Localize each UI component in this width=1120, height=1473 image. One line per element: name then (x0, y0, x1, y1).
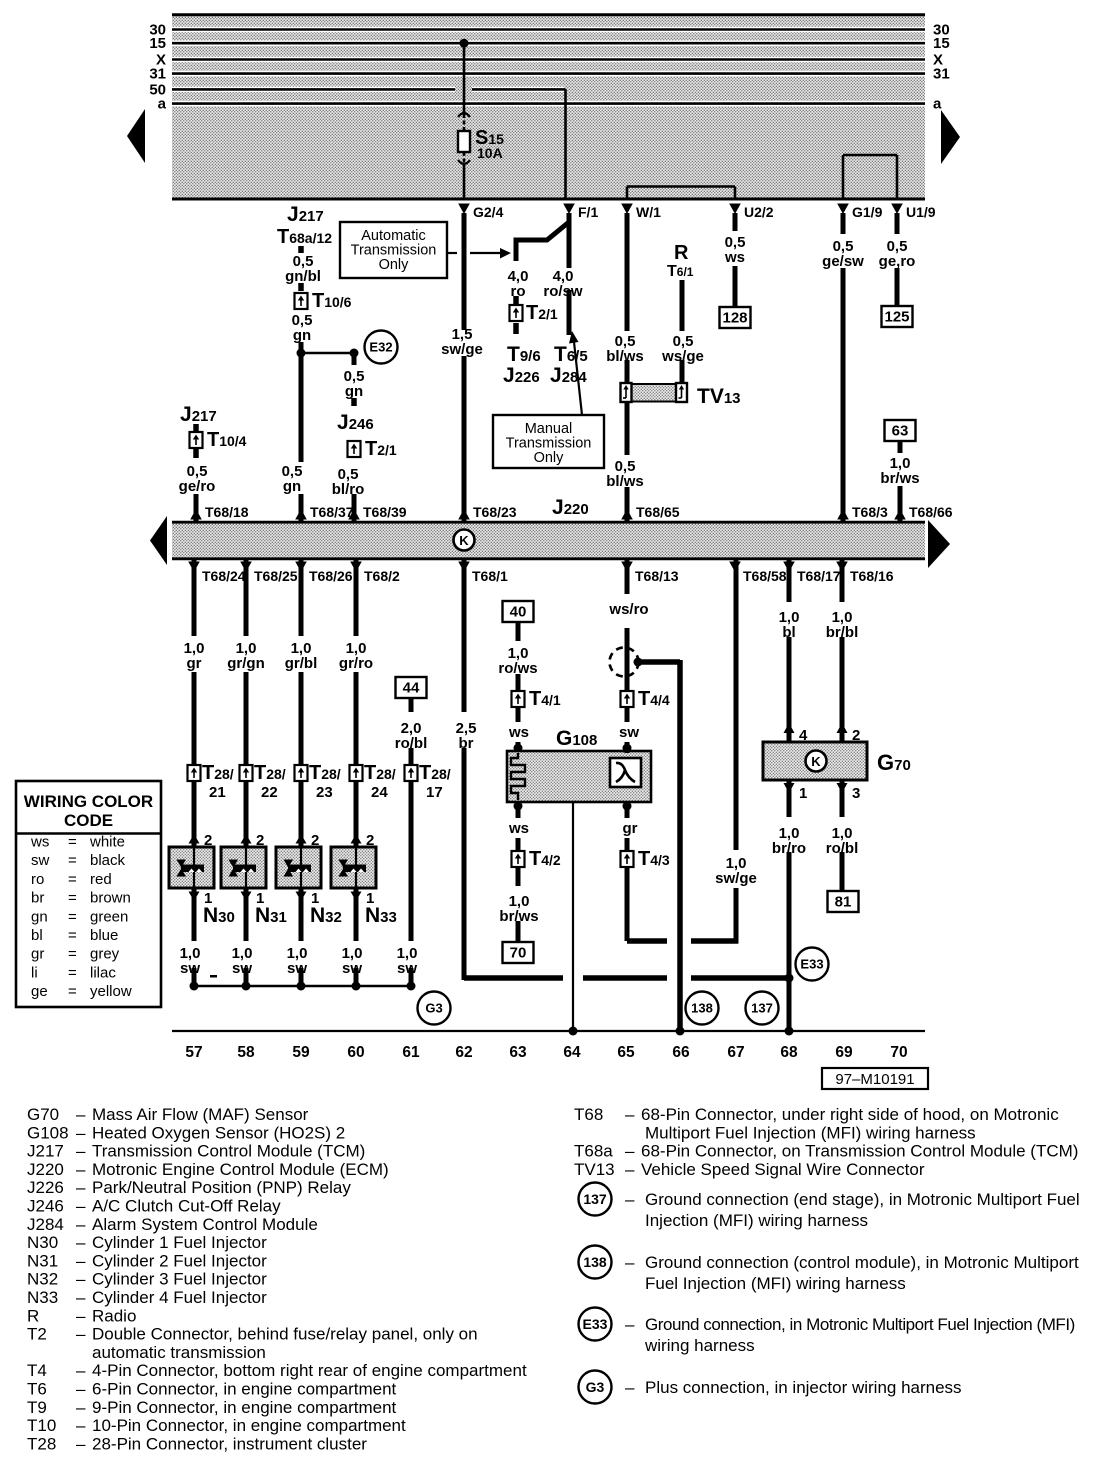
svg-text:=: = (68, 964, 77, 981)
svg-text:24: 24 (371, 784, 388, 801)
svg-text:22: 22 (261, 784, 278, 801)
svg-text:N33: N33 (27, 1288, 58, 1307)
svg-text:J217: J217 (27, 1142, 64, 1161)
svg-text:T68/25: T68/25 (254, 568, 298, 584)
svg-text:T6/1: T6/1 (667, 263, 694, 280)
svg-text:=: = (68, 852, 77, 869)
svg-text:–: – (625, 1160, 635, 1179)
svg-text:Transmission Control Module (T: Transmission Control Module (TCM) (92, 1142, 365, 1161)
svg-text:bl: bl (31, 927, 43, 944)
svg-text:G1/9: G1/9 (852, 204, 883, 220)
svg-text:–: – (76, 1142, 86, 1161)
svg-text:W/1: W/1 (636, 204, 661, 220)
svg-text:–: – (76, 1288, 86, 1307)
svg-text:gr/gn: gr/gn (227, 655, 265, 672)
svg-text:gn: gn (293, 327, 311, 344)
svg-text:gr/ro: gr/ro (339, 655, 373, 672)
svg-text:10-Pin Connector, in engine co: 10-Pin Connector, in engine compartment (92, 1416, 406, 1435)
svg-text:U2/2: U2/2 (744, 204, 774, 220)
svg-text:G3: G3 (425, 1001, 442, 1016)
svg-text:T10/4: T10/4 (207, 429, 247, 451)
svg-text:sw: sw (31, 852, 50, 869)
svg-text:–: – (625, 1378, 635, 1397)
svg-text:T68a/12: T68a/12 (277, 226, 332, 248)
svg-text:15: 15 (149, 35, 166, 52)
svg-text:li: li (31, 964, 38, 981)
svg-text:Fuel Injection (MFI) wiring ha: Fuel Injection (MFI) wiring harness (645, 1274, 906, 1293)
svg-text:59: 59 (292, 1044, 310, 1061)
svg-text:R: R (674, 242, 689, 264)
svg-text:69: 69 (835, 1044, 853, 1061)
svg-text:gn: gn (283, 478, 301, 495)
svg-text:T68/3: T68/3 (852, 504, 888, 520)
svg-text:T68/23: T68/23 (473, 504, 517, 520)
svg-text:black: black (90, 852, 126, 869)
svg-text:15: 15 (933, 35, 950, 52)
svg-text:63: 63 (509, 1044, 527, 1061)
svg-text:Heated Oxygen Sensor (HO2S) 2: Heated Oxygen Sensor (HO2S) 2 (92, 1123, 345, 1142)
svg-text:a: a (158, 96, 167, 113)
svg-text:T28/: T28/ (202, 762, 234, 784)
svg-text:lilac: lilac (90, 964, 116, 981)
svg-text:blue: blue (90, 927, 118, 944)
svg-text:green: green (90, 908, 128, 925)
svg-text:K: K (459, 533, 469, 548)
svg-text:T4/4: T4/4 (638, 688, 670, 710)
svg-text:T68/18: T68/18 (205, 504, 249, 520)
svg-text:sw: sw (342, 960, 362, 977)
svg-text:60: 60 (347, 1044, 364, 1061)
svg-text:65: 65 (617, 1044, 635, 1061)
svg-text:bl/ro: bl/ro (332, 481, 365, 498)
svg-text:sw/ge: sw/ge (441, 341, 483, 358)
svg-text:J226: J226 (27, 1178, 64, 1197)
svg-text:E33: E33 (583, 1316, 608, 1332)
svg-text:G70: G70 (27, 1105, 59, 1124)
svg-text:T10/6: T10/6 (312, 290, 352, 312)
svg-text:81: 81 (835, 894, 852, 911)
svg-text:64: 64 (563, 1044, 581, 1061)
svg-text:gr: gr (31, 946, 44, 963)
svg-text:ge/sw: ge/sw (822, 253, 864, 270)
svg-text:TV13: TV13 (574, 1160, 615, 1179)
svg-text:T68/17: T68/17 (797, 568, 841, 584)
svg-text:–: – (625, 1315, 635, 1334)
svg-text:grey: grey (90, 946, 120, 963)
svg-text:CODE: CODE (64, 811, 113, 830)
svg-text:17: 17 (426, 784, 443, 801)
svg-text:gr/bl: gr/bl (285, 655, 318, 672)
svg-text:=: = (68, 908, 77, 925)
svg-text:Ground connection, in Motronic: Ground connection, in Motronic Multiport… (645, 1315, 1075, 1334)
svg-text:31: 31 (149, 66, 166, 83)
svg-text:Ground connection (end stage),: Ground connection (end stage), in Motron… (645, 1190, 1080, 1209)
svg-text:T10: T10 (27, 1416, 56, 1435)
svg-text:–: – (76, 1178, 86, 1197)
svg-text:br/ws: br/ws (880, 470, 919, 487)
svg-text:1: 1 (799, 785, 807, 802)
svg-text:70: 70 (510, 945, 527, 962)
svg-text:T9: T9 (27, 1398, 47, 1417)
svg-text:–: – (625, 1105, 635, 1124)
svg-text:Ground connection (control mod: Ground connection (control module), in M… (645, 1253, 1079, 1272)
svg-text:J284: J284 (27, 1215, 64, 1234)
svg-text:=: = (68, 890, 77, 907)
svg-text:T68/66: T68/66 (909, 504, 953, 520)
svg-text:sw: sw (287, 960, 307, 977)
svg-text:ge,ro: ge,ro (879, 253, 916, 270)
svg-text:F/1: F/1 (578, 204, 598, 220)
svg-text:58: 58 (237, 1044, 255, 1061)
svg-text:automatic transmission: automatic transmission (92, 1343, 266, 1362)
svg-text:137: 137 (583, 1191, 607, 1207)
svg-text:Radio: Radio (92, 1306, 136, 1325)
svg-text:61: 61 (402, 1044, 420, 1061)
svg-text:137: 137 (751, 1001, 773, 1016)
svg-text:ws: ws (30, 834, 49, 851)
svg-text:T68a: T68a (574, 1142, 613, 1161)
svg-text:–: – (76, 1306, 86, 1325)
svg-text:3: 3 (852, 785, 860, 802)
svg-text:6-Pin Connector, in engine com: 6-Pin Connector, in engine compartment (92, 1380, 397, 1399)
svg-text:ro: ro (31, 871, 44, 888)
svg-text:wiring harness: wiring harness (644, 1336, 755, 1355)
svg-text:Multiport Fuel Injection (MFI): Multiport Fuel Injection (MFI) wiring ha… (645, 1123, 976, 1142)
svg-text:–: – (76, 1398, 86, 1417)
svg-text:Plus connection, in injector w: Plus connection, in injector wiring harn… (645, 1378, 962, 1397)
svg-text:A/C Clutch Cut-Off Relay: A/C Clutch Cut-Off Relay (92, 1197, 281, 1216)
svg-text:T68/37: T68/37 (310, 504, 354, 520)
svg-text:gn: gn (345, 383, 363, 400)
svg-text:gn/bl: gn/bl (285, 268, 321, 285)
svg-text:23: 23 (316, 784, 333, 801)
svg-text:Mass Air Flow (MAF) Sensor: Mass Air Flow (MAF) Sensor (92, 1105, 309, 1124)
svg-text:J220: J220 (27, 1160, 64, 1179)
svg-text:T68/58: T68/58 (743, 568, 787, 584)
svg-text:=: = (68, 983, 77, 1000)
svg-text:U1/9: U1/9 (906, 204, 936, 220)
svg-text:97–M10191: 97–M10191 (835, 1071, 914, 1088)
svg-text:T68: T68 (574, 1105, 603, 1124)
svg-text:T68/39: T68/39 (363, 504, 407, 520)
svg-text:E33: E33 (800, 957, 823, 972)
svg-text:brown: brown (90, 890, 131, 907)
svg-text:T4/1: T4/1 (529, 688, 561, 710)
svg-text:–: – (76, 1160, 86, 1179)
svg-text:gn: gn (31, 908, 48, 925)
svg-text:9-Pin Connector, in engine com: 9-Pin Connector, in engine compartment (92, 1398, 397, 1417)
svg-text:ge: ge (31, 983, 48, 1000)
svg-text:125: 125 (884, 309, 909, 326)
svg-text:T4: T4 (27, 1361, 47, 1380)
svg-text:21: 21 (209, 784, 226, 801)
svg-text:sw: sw (180, 960, 200, 977)
svg-text:ro/sw: ro/sw (543, 283, 583, 300)
svg-text:T28/: T28/ (254, 762, 286, 784)
svg-text:T68/26: T68/26 (309, 568, 353, 584)
svg-text:28-Pin Connector, instrument c: 28-Pin Connector, instrument cluster (92, 1434, 367, 1453)
svg-text:70: 70 (890, 1044, 907, 1061)
svg-text:T68/24: T68/24 (202, 568, 246, 584)
svg-text:gr: gr (623, 820, 638, 837)
svg-text:T6: T6 (27, 1380, 47, 1399)
svg-text:sw: sw (619, 724, 639, 741)
svg-text:sw/ge: sw/ge (715, 870, 757, 887)
svg-text:br: br (31, 890, 44, 907)
svg-text:10A: 10A (477, 145, 503, 161)
svg-text:sw: sw (397, 960, 417, 977)
svg-text:–: – (76, 1361, 86, 1380)
svg-text:=: = (68, 871, 77, 888)
svg-text:4-Pin Connector, bottom right: 4-Pin Connector, bottom right rear of en… (92, 1361, 527, 1380)
svg-text:=: = (68, 927, 77, 944)
svg-text:–: – (76, 1215, 86, 1234)
svg-text:N32: N32 (27, 1270, 58, 1289)
svg-text:J246: J246 (27, 1197, 64, 1216)
svg-text:T4/3: T4/3 (638, 848, 670, 870)
svg-text:–: – (76, 1380, 86, 1399)
svg-text:Injection (MFI) wiring harness: Injection (MFI) wiring harness (645, 1211, 868, 1230)
svg-text:E32: E32 (369, 340, 392, 355)
svg-text:sw: sw (232, 960, 252, 977)
svg-text:–: – (76, 1416, 86, 1435)
svg-text:=: = (68, 946, 77, 963)
svg-text:–: – (76, 1270, 86, 1289)
svg-text:66: 66 (672, 1044, 690, 1061)
svg-text:128: 128 (722, 310, 747, 327)
svg-text:T68/65: T68/65 (636, 504, 680, 520)
svg-text:G2/4: G2/4 (473, 204, 504, 220)
svg-text:T68/16: T68/16 (850, 568, 894, 584)
svg-text:ws: ws (508, 724, 529, 741)
svg-text:Motronic Engine Control Module: Motronic Engine Control Module (ECM) (92, 1160, 389, 1179)
svg-text:T4/2: T4/2 (529, 848, 561, 870)
svg-text:white: white (89, 834, 125, 851)
svg-text:44: 44 (403, 680, 420, 697)
svg-text:T28/: T28/ (419, 762, 451, 784)
svg-text:Cylinder 1 Fuel Injector: Cylinder 1 Fuel Injector (92, 1233, 267, 1252)
svg-text:–: – (76, 1325, 86, 1344)
svg-text:N30: N30 (27, 1233, 58, 1252)
svg-text:31: 31 (933, 66, 950, 83)
svg-text:ws: ws (724, 249, 745, 266)
svg-text:Cylinder 2 Fuel Injector: Cylinder 2 Fuel Injector (92, 1251, 267, 1270)
svg-text:WIRING COLOR: WIRING COLOR (24, 792, 153, 811)
svg-text:67: 67 (727, 1044, 744, 1061)
svg-text:N31: N31 (27, 1251, 58, 1270)
svg-text:–: – (76, 1105, 86, 1124)
svg-text:68: 68 (780, 1044, 798, 1061)
svg-text:ge/ro: ge/ro (179, 478, 216, 495)
svg-text:a: a (933, 96, 942, 113)
svg-text:G3: G3 (586, 1379, 605, 1395)
svg-text:–: – (625, 1142, 635, 1161)
svg-text:yellow: yellow (90, 983, 132, 1000)
svg-text:T28/: T28/ (309, 762, 341, 784)
svg-text:Vehicle Speed Signal Wire Conn: Vehicle Speed Signal Wire Connector (641, 1160, 925, 1179)
svg-text:T2/1: T2/1 (365, 438, 397, 460)
svg-text:T68/1: T68/1 (472, 568, 508, 584)
svg-text:63: 63 (892, 423, 909, 440)
svg-text:57: 57 (185, 1044, 202, 1061)
svg-text:ws: ws (508, 820, 529, 837)
svg-text:Alarm System Control Module: Alarm System Control Module (92, 1215, 318, 1234)
svg-text:T2/1: T2/1 (526, 302, 558, 324)
svg-text:40: 40 (510, 604, 527, 621)
svg-text:Park/Neutral Position (PNP) Re: Park/Neutral Position (PNP) Relay (92, 1178, 351, 1197)
svg-text:68-Pin Connector, on Transmiss: 68-Pin Connector, on Transmission Contro… (641, 1142, 1078, 1161)
svg-text:–: – (76, 1434, 86, 1453)
svg-text:gr: gr (187, 655, 202, 672)
svg-text:R: R (27, 1306, 39, 1325)
svg-text:68-Pin Connector, under right: 68-Pin Connector, under right side of ho… (641, 1105, 1059, 1124)
svg-text:T68/13: T68/13 (635, 568, 679, 584)
svg-text:–: – (76, 1123, 86, 1142)
svg-text:T28/: T28/ (364, 762, 396, 784)
svg-text:–: – (625, 1253, 635, 1272)
svg-text:Double Connector, behind fuse/: Double Connector, behind fuse/relay pane… (92, 1325, 478, 1344)
svg-text:138: 138 (691, 1001, 713, 1016)
svg-text:138: 138 (583, 1254, 607, 1270)
svg-text:–: – (76, 1251, 86, 1270)
svg-text:G108: G108 (27, 1123, 69, 1142)
svg-text:Only: Only (379, 257, 410, 273)
svg-text:T28: T28 (27, 1434, 56, 1453)
svg-text:T68/2: T68/2 (364, 568, 400, 584)
svg-text:Only: Only (534, 450, 565, 466)
svg-text:T2: T2 (27, 1325, 47, 1344)
svg-text:red: red (90, 871, 112, 888)
svg-text:Cylinder 4 Fuel Injector: Cylinder 4 Fuel Injector (92, 1288, 267, 1307)
svg-text:ws/ro: ws/ro (608, 601, 648, 618)
svg-text:–: – (76, 1197, 86, 1216)
svg-text:Cylinder 3 Fuel Injector: Cylinder 3 Fuel Injector (92, 1270, 267, 1289)
svg-text:=: = (68, 834, 77, 851)
svg-text:–: – (625, 1190, 635, 1209)
svg-text:62: 62 (455, 1044, 472, 1061)
svg-text:K: K (811, 754, 821, 769)
svg-text:–: – (76, 1233, 86, 1252)
